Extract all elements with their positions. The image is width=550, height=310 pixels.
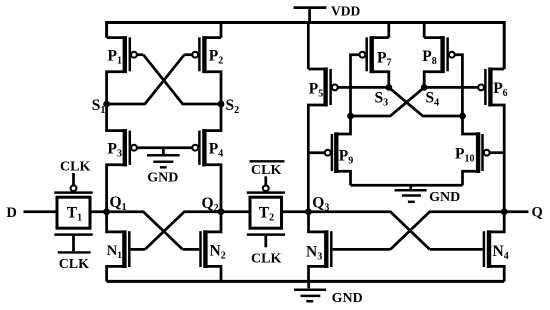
- wire T1 to node Q1: [90, 210, 107, 213]
- svg-text:CLK: CLK: [251, 251, 281, 266]
- transistor P5: [308, 68, 337, 212]
- wire D to T1: [24, 210, 57, 213]
- svg-text:P10: P10: [455, 146, 474, 165]
- svg-text:GND: GND: [332, 291, 363, 306]
- wire P3 gate to P4 gate: [137, 146, 192, 149]
- svg-text:P3: P3: [108, 140, 122, 159]
- wire bottom rail: [107, 280, 505, 283]
- svg-text:N1: N1: [107, 243, 122, 261]
- transmission gate T1: [54, 173, 92, 252]
- transmission gate T2: [247, 176, 285, 247]
- wire node Q2 to N1 gate: [145, 212, 221, 250]
- svg-text:CLK: CLK: [60, 160, 90, 175]
- node S1: [103, 101, 110, 108]
- wire N3 gate to node Q: [390, 212, 504, 250]
- transistor P1: [107, 36, 144, 104]
- wire rail stub to P2: [220, 23, 223, 38]
- power VDD symbol: [294, 8, 327, 23]
- wire P1 gate to node S2: [143, 55, 221, 104]
- ground right: [395, 185, 427, 202]
- svg-text:S3: S3: [375, 90, 389, 109]
- transistor N4: [430, 212, 505, 282]
- svg-text:Q: Q: [532, 205, 543, 221]
- svg-text:S2: S2: [226, 97, 240, 116]
- node Q3: [305, 208, 312, 215]
- svg-text:P6: P6: [493, 80, 507, 99]
- ground middle: [147, 148, 180, 168]
- node S2: [218, 101, 225, 108]
- transistor P4: [192, 104, 221, 212]
- node Q1: [103, 208, 110, 215]
- wire node Q to output: [504, 210, 528, 213]
- node S4: [421, 84, 428, 91]
- node P7 gate junction: [347, 113, 354, 120]
- wire P2 gate to node S1: [107, 55, 185, 104]
- svg-text:P2: P2: [209, 48, 223, 67]
- svg-text:P9: P9: [339, 148, 353, 167]
- transistor N2: [183, 212, 221, 282]
- transistor P6: [478, 68, 504, 212]
- svg-text:P7: P7: [377, 49, 391, 68]
- svg-text:P4: P4: [209, 141, 223, 160]
- svg-text:GND: GND: [429, 190, 460, 205]
- wire node S4 to P7 gate line: [351, 87, 425, 116]
- transistor P3: [107, 104, 137, 212]
- wire rail stub to P5 column: [307, 23, 310, 70]
- wire top VDD rail: [107, 23, 505, 70]
- svg-text:D: D: [6, 205, 16, 221]
- transistor N1: [107, 212, 145, 282]
- transistor N3: [309, 212, 391, 282]
- wire P5 gate to node S3: [338, 86, 389, 89]
- wire node S3 to P8 gate line: [389, 87, 463, 116]
- svg-text:N2: N2: [210, 242, 226, 261]
- svg-text:GND: GND: [147, 171, 178, 186]
- node Q: [501, 208, 508, 215]
- node P8 gate junction: [459, 113, 466, 120]
- svg-text:T1: T1: [67, 205, 82, 224]
- svg-text:CLK: CLK: [251, 163, 281, 178]
- transistor P2: [184, 36, 221, 104]
- svg-text:S1: S1: [92, 97, 106, 116]
- wire overline of CLKbar above T2: [250, 160, 285, 162]
- svg-text:N3: N3: [306, 243, 322, 262]
- transistor P8: [424, 36, 462, 116]
- ground bottom: [294, 281, 326, 301]
- transistor P10: [463, 116, 505, 185]
- wire node Q1 to N2 gate: [107, 212, 183, 250]
- node Q2: [218, 208, 225, 215]
- wire rail stub to P8: [423, 23, 426, 38]
- wire node Q3 to N4 gate: [309, 212, 430, 250]
- svg-text:N4: N4: [493, 243, 509, 262]
- svg-text:S4: S4: [426, 90, 440, 109]
- wire rail stub to P7: [387, 23, 390, 38]
- svg-text:T2: T2: [259, 205, 274, 224]
- wire T2 to node Q3: [283, 210, 309, 213]
- wire P6 gate to node S4: [424, 86, 478, 89]
- svg-text:Q1: Q1: [110, 194, 127, 213]
- svg-text:CLK: CLK: [59, 257, 89, 272]
- wire P9 source to P10 source: [351, 184, 463, 187]
- transistor P7: [351, 36, 389, 116]
- svg-text:P5: P5: [309, 81, 323, 100]
- svg-text:P1: P1: [108, 47, 122, 66]
- svg-text:P8: P8: [422, 48, 436, 67]
- transistor P9: [308, 116, 350, 185]
- svg-text:VDD: VDD: [331, 4, 360, 19]
- node S3: [385, 84, 392, 91]
- wire node Q2 to T2: [221, 210, 249, 213]
